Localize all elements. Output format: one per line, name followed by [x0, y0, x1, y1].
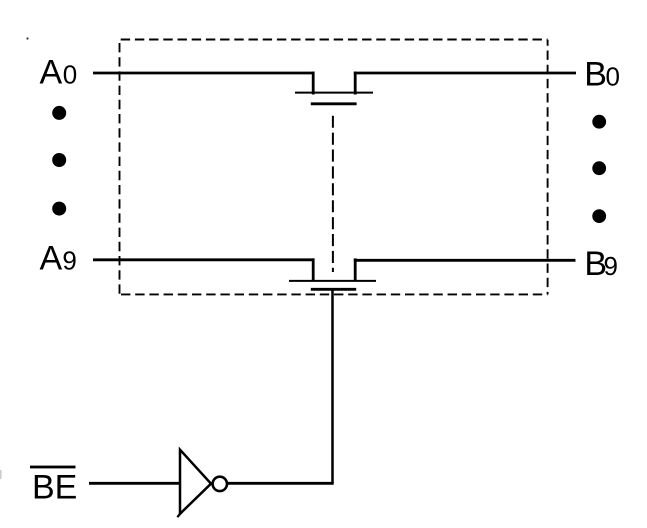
- gate bus wire (dashed, Q0 gate to Q9 gate): [332, 116, 334, 272]
- wire B9: [354, 259, 576, 262]
- box left edge: [119, 43, 121, 294]
- wire A9: [93, 258, 315, 261]
- ellipsis dots right: [592, 115, 606, 223]
- svg-text:A: A: [40, 53, 63, 91]
- svg-text:B: B: [584, 56, 607, 94]
- switch group box (dashed): [120, 40, 548, 295]
- inverter triangle: [180, 450, 211, 514]
- wire A0: [93, 72, 315, 75]
- inverter bubble: [213, 477, 227, 491]
- net label B0: [584, 56, 620, 94]
- source lead Q0: [354, 72, 357, 95]
- svg-text:0: 0: [606, 62, 620, 92]
- box top edge: [121, 39, 548, 41]
- wire BE input: [89, 482, 180, 485]
- channel line Q0: [295, 92, 373, 94]
- svg-text:BE: BE: [32, 469, 77, 507]
- box right edge: [547, 40, 549, 295]
- triangle overshoot stroke: [177, 512, 182, 517]
- net label A9: [40, 239, 77, 277]
- wire gate vertical (Q9 gate to inverter output): [331, 289, 334, 483]
- gate line Q0: [311, 102, 357, 105]
- gate line Q9: [311, 288, 356, 291]
- wire inverter output horizontal: [227, 482, 334, 485]
- net label B9: [584, 245, 618, 283]
- inverter U1: [177, 450, 227, 517]
- wire B0: [354, 72, 576, 75]
- net label BE (active low, overline): [30, 466, 77, 507]
- channel line Q9: [289, 280, 376, 282]
- drain lead Q0: [312, 72, 315, 95]
- stray speck: [26, 37, 28, 39]
- drain lead Q9: [312, 258, 315, 281]
- faint edge smudge: [0, 470, 2, 479]
- transistor Q9 (pass transistor, bit 9): [289, 258, 376, 289]
- svg-text:0: 0: [63, 59, 77, 89]
- net label A0: [40, 53, 78, 91]
- svg-text:9: 9: [604, 251, 618, 281]
- svg-text:A: A: [40, 239, 63, 277]
- ellipsis dots left: [52, 106, 66, 216]
- box bottom edge: [121, 293, 548, 295]
- svg-text:9: 9: [62, 245, 76, 275]
- source lead Q9: [354, 258, 357, 281]
- transistor Q0 (pass transistor, bit 0): [295, 72, 373, 104]
